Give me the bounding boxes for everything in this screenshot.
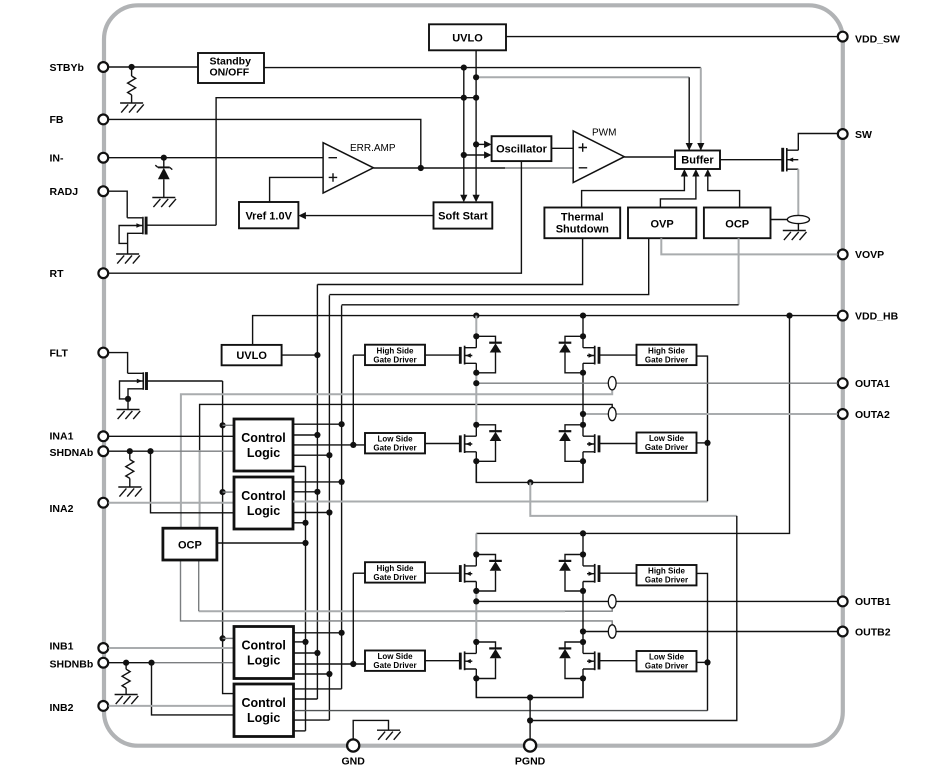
junction CL-B1 out5 on X2 bbox=[326, 671, 332, 677]
block OCP lower bbox=[163, 528, 217, 560]
wire FLT to small FET drain bbox=[109, 353, 128, 374]
junction bridge B rail right leg bbox=[580, 530, 586, 536]
junction CL-A1 out1 on X3 bbox=[339, 421, 345, 427]
block Low Side Gate Driver A-left bbox=[365, 433, 425, 453]
wire INB1 to CL-B1 bbox=[109, 647, 235, 649]
block High Side Gate Driver A-left bbox=[365, 345, 425, 365]
block Standby ON/OFF bbox=[198, 53, 264, 83]
resistor R-SHDNB bbox=[122, 669, 130, 688]
wire FB to error amp output node bbox=[109, 119, 421, 168]
arrowhead OVP into Buffer bbox=[692, 169, 699, 177]
wire SHDNAb bbox=[109, 450, 151, 452]
wire CL-B2 out1 to X3 end bbox=[294, 688, 342, 690]
svg-text:UVLO: UVLO bbox=[236, 350, 267, 362]
bond ellipse OUTB2 bbox=[608, 625, 616, 638]
wire OCP down to bus X3 bbox=[738, 238, 740, 305]
wire riser 2 to oscillator input 1 bbox=[476, 143, 488, 145]
wire HSGD B-right to gate bbox=[599, 572, 636, 574]
wire VDD_HB distribution bbox=[253, 316, 838, 345]
ground R-SHDNB bbox=[115, 695, 139, 705]
wire VDD_HB riser to bridge B rail bbox=[476, 316, 789, 534]
zener diode on IN- bbox=[155, 158, 172, 198]
svg-text:VOVP: VOVP bbox=[855, 249, 884, 261]
junction riser bus 2 bbox=[473, 95, 479, 101]
pin INB2 bbox=[50, 701, 109, 714]
op-amp ERR.AMP bbox=[323, 143, 396, 193]
arrowhead TS into Buffer bbox=[681, 169, 688, 177]
wire CL-A2 out2 to X1 bbox=[293, 491, 317, 493]
junction CL-A2 out4 on X2 bbox=[326, 509, 332, 515]
bond ellipse OUTB1 bbox=[608, 595, 616, 608]
svg-text:Low Side: Low Side bbox=[377, 435, 413, 444]
wire INA2 to CL-A2 bbox=[109, 502, 235, 504]
wire LSGD A-right input bbox=[697, 442, 708, 444]
wire OUTA1 net bbox=[476, 382, 837, 384]
wire OUTA2 net bbox=[583, 413, 838, 415]
transistor B low-right NMOS bbox=[559, 642, 599, 679]
junction bridge A source node bbox=[527, 479, 533, 485]
svg-text:SHDNBb: SHDNBb bbox=[50, 658, 94, 670]
pin OUTB1 bbox=[838, 596, 891, 608]
wire HSGD A-right input riser bbox=[697, 356, 708, 501]
svg-text:Gate Driver: Gate Driver bbox=[373, 661, 416, 670]
resistor R-STBY bbox=[128, 76, 136, 95]
svg-text:High Side: High Side bbox=[648, 567, 685, 576]
transistor A high-right NMOS bbox=[559, 336, 599, 373]
junction B high-left drain bbox=[473, 551, 479, 557]
svg-text:Logic: Logic bbox=[247, 446, 280, 460]
junction A high-left drain bbox=[473, 333, 479, 339]
arrowhead UVLO riser into Soft Start bbox=[473, 195, 480, 203]
svg-text:OUTB2: OUTB2 bbox=[855, 626, 891, 638]
bridge B left leg bbox=[475, 533, 477, 697]
bus X1 vertical bbox=[316, 285, 318, 700]
pin OUTA2 bbox=[838, 409, 890, 421]
transistor B high-left NMOS bbox=[460, 555, 502, 592]
junction A low-left source bbox=[473, 458, 479, 464]
wire CL-A1 out5 to X5 top bbox=[293, 465, 306, 467]
block Buffer bbox=[675, 151, 720, 170]
svg-text:Vref 1.0V: Vref 1.0V bbox=[245, 210, 292, 222]
pin IN- bbox=[50, 153, 109, 165]
transistor B low-left NMOS bbox=[460, 642, 502, 679]
arrowhead into Vref bbox=[298, 212, 306, 219]
wire oscillator to PWM + input bbox=[551, 147, 573, 149]
transistor SW NMOS bbox=[783, 148, 799, 172]
svg-text:Gate Driver: Gate Driver bbox=[645, 576, 688, 585]
pin PGND bbox=[515, 739, 546, 767]
wire Soft Start to Vref bbox=[302, 215, 434, 217]
wire LSGD B-right to gate bbox=[599, 660, 636, 662]
junction FLT into CL-B1 bbox=[220, 635, 226, 641]
bus X4A vertical bbox=[352, 355, 354, 445]
block Vref 1.0V bbox=[239, 202, 298, 228]
junction PGND rail bbox=[527, 717, 533, 723]
arrowhead into oscillator input 2 bbox=[484, 151, 492, 158]
wire OUTB1 net bbox=[476, 600, 837, 602]
junction CL-A2 out2 on X1 bbox=[314, 489, 320, 495]
wire bridge B to PGND pin bbox=[529, 698, 531, 741]
svg-text:OUTB1: OUTB1 bbox=[855, 596, 891, 608]
wire CL-B2 out5 to X5 end bbox=[294, 730, 306, 732]
wire CL-B1 out5 to X2 bbox=[294, 673, 330, 675]
pin SHDNAb bbox=[50, 446, 109, 458]
junction CL-B1 out2 on X5 bbox=[302, 639, 308, 645]
wire Buffer to SW FET gate bbox=[720, 159, 782, 161]
block OCP bbox=[704, 208, 771, 239]
junction B low-right drain bbox=[580, 639, 586, 645]
wire X4A to HSGD A-left bbox=[353, 354, 365, 356]
wire OUTA2 feedback bbox=[200, 404, 613, 450]
wire OVP to Buffer bbox=[660, 172, 696, 208]
junction CL-B1 out3 on X1 bbox=[314, 650, 320, 656]
junction LSGD A-right on riser bbox=[704, 440, 710, 446]
wire HSGD A-right to gate bbox=[599, 354, 636, 356]
wire CL-B2 out4 to X2 end bbox=[294, 719, 330, 721]
wire LSGD A-right to gate bbox=[599, 443, 636, 445]
block Control Logic A1 bbox=[234, 419, 293, 471]
wire Standby output to buffer column bbox=[264, 67, 701, 69]
junction SHDNAb resistor tap bbox=[127, 448, 133, 454]
wire CL-B2 out3 to bridge B right drivers bbox=[294, 710, 708, 712]
bridge B right leg bbox=[582, 533, 584, 697]
svg-text:SW: SW bbox=[855, 129, 872, 141]
block Control Logic A2 bbox=[234, 477, 293, 529]
comparator PWM bbox=[573, 128, 624, 183]
block High Side Gate Driver B-left bbox=[365, 562, 425, 582]
junction B high-left source bbox=[473, 588, 479, 594]
junction IN- zener tap bbox=[161, 155, 167, 161]
chip outline bbox=[104, 5, 843, 745]
transistor A low-left NMOS bbox=[460, 425, 502, 462]
pin VDD_SW bbox=[838, 32, 900, 46]
svg-text:ERR.AMP: ERR.AMP bbox=[350, 143, 396, 154]
wire SHDNBb resistor stub bbox=[125, 663, 127, 695]
svg-text:GND: GND bbox=[342, 756, 366, 768]
wire RT to oscillator bbox=[109, 161, 522, 273]
wire CL-A2 out3 gray to bridge A right drivers bbox=[293, 501, 708, 503]
wire LSGD B-left to gate bbox=[425, 660, 460, 662]
wire CL-B1 out1 to X3 bbox=[294, 632, 342, 634]
svg-text:Oscillator: Oscillator bbox=[496, 144, 547, 156]
svg-text:VDD_SW: VDD_SW bbox=[855, 33, 900, 45]
junction CL-A2 out1 on X3 bbox=[339, 479, 345, 485]
bond ellipse OUTA2 bbox=[608, 407, 616, 420]
svg-text:ON/OFF: ON/OFF bbox=[210, 67, 250, 79]
block Low Side Gate Driver B-left bbox=[365, 651, 425, 671]
wire HSGD B-left to gate bbox=[425, 572, 460, 574]
svg-text:Logic: Logic bbox=[247, 711, 280, 725]
wire OUTB2 net bbox=[583, 631, 838, 633]
svg-text:High Side: High Side bbox=[648, 346, 685, 355]
svg-text:INA2: INA2 bbox=[50, 503, 74, 515]
wire FLT FET gate to bus bbox=[147, 380, 223, 382]
wire gray net to buffer column bbox=[476, 76, 689, 78]
junction OCP lower on X5 bbox=[302, 540, 308, 546]
svg-text:VDD_HB: VDD_HB bbox=[855, 310, 899, 322]
svg-text:Control: Control bbox=[241, 696, 285, 710]
transistor A low-right NMOS bbox=[559, 425, 599, 462]
svg-text:UVLO: UVLO bbox=[452, 32, 483, 44]
svg-text:Logic: Logic bbox=[247, 654, 280, 668]
block Low Side Gate Driver B-right bbox=[637, 651, 697, 671]
svg-text:FLT: FLT bbox=[50, 347, 69, 359]
ground SW source bbox=[783, 231, 807, 241]
block Thermal Shutdown bbox=[544, 208, 620, 239]
wire UVLO lower output to bus X1 bbox=[282, 354, 318, 356]
svg-text:OUTA1: OUTA1 bbox=[855, 378, 890, 390]
junction VDD_HB bridge A right leg bbox=[580, 313, 586, 319]
block Low Side Gate Driver A-right bbox=[637, 433, 697, 453]
svg-text:INA1: INA1 bbox=[50, 431, 74, 443]
bus X4B vertical bbox=[352, 573, 354, 664]
wire CL-A2 out1 to X3 bbox=[293, 481, 342, 483]
bond ellipse OUTA1 bbox=[608, 377, 616, 390]
junction CL-A1 out2 on X1 bbox=[314, 432, 320, 438]
wire CL-A1 out4 to X2 bbox=[293, 454, 329, 456]
pin GND bbox=[342, 739, 366, 767]
wire OUTB1 feedback gray bbox=[565, 608, 612, 611]
wire RADJ FET gate to riser bbox=[146, 224, 216, 226]
wire LSGD B-right input bbox=[697, 661, 708, 663]
wire OCP lower output to X5 bbox=[217, 542, 306, 544]
ground substrate bbox=[377, 730, 401, 740]
wire Thermal Shutdown to Buffer bbox=[582, 172, 685, 208]
bus X2 vertical bbox=[328, 295, 330, 720]
svg-text:SHDNAb: SHDNAb bbox=[50, 447, 94, 459]
wire GND pin to substrate ground bbox=[353, 720, 388, 740]
wire UVLO to VDD_SW bbox=[506, 36, 838, 38]
wire OUTB2 feedback gray bbox=[181, 560, 613, 625]
junction riser1 osc tap bbox=[461, 152, 467, 158]
wire SHDNBb bbox=[109, 662, 152, 664]
wire gray vertical into Buffer top bbox=[700, 68, 702, 150]
junction SHDNAb branch bbox=[147, 448, 153, 454]
block Control Logic B1 bbox=[234, 627, 294, 679]
junction gray net on UVLO riser bbox=[473, 74, 479, 80]
wire CL-A1 out3 to low side gate driver A left bbox=[293, 444, 365, 446]
svg-text:Control: Control bbox=[241, 639, 285, 653]
svg-text:STBYb: STBYb bbox=[50, 62, 84, 74]
svg-text:Shutdown: Shutdown bbox=[556, 224, 609, 236]
transistor RADJ FET bbox=[116, 217, 146, 264]
pin INB1 bbox=[50, 641, 109, 653]
junction standby line / riser bbox=[461, 65, 467, 71]
svg-text:High Side: High Side bbox=[377, 346, 414, 355]
pin FB bbox=[50, 114, 109, 126]
bridge A left leg bbox=[475, 316, 477, 483]
block UVLO lower bbox=[222, 345, 282, 365]
wire IN- to error amp inverting input bbox=[109, 157, 324, 159]
wire SHDNAb branch to CL-A2 bbox=[151, 451, 235, 513]
svg-text:Logic: Logic bbox=[247, 504, 280, 518]
wire STBYb to Standby block bbox=[109, 66, 199, 68]
wire CL-A2 out5 to X5 bbox=[293, 522, 306, 524]
junction CL-B1 out4 on X4B bbox=[350, 661, 356, 667]
wire RADJ gate riser to top bus bbox=[216, 98, 476, 226]
pin STBYb bbox=[50, 62, 109, 74]
junction B high-right drain bbox=[580, 551, 586, 557]
junction A high-right drain bbox=[580, 333, 586, 339]
wire black vertical into Buffer top bbox=[688, 77, 690, 152]
svg-text:IN-: IN- bbox=[50, 153, 65, 165]
svg-text:Gate Driver: Gate Driver bbox=[373, 573, 416, 582]
wire INB2 to CL-B2 bbox=[109, 705, 235, 707]
junction UVLO lower on X1 bbox=[314, 352, 320, 358]
wire UVLO riser bbox=[475, 50, 477, 199]
junction FLT FET source-body bbox=[125, 396, 131, 402]
junction FLT into CL-A2 bbox=[220, 489, 226, 495]
arrowhead OCP into Buffer bbox=[704, 169, 711, 177]
pin RT bbox=[50, 268, 109, 280]
junction SHDNBb resistor tap bbox=[123, 660, 129, 666]
svg-text:Control: Control bbox=[241, 431, 285, 445]
sense ellipse SW source bbox=[787, 215, 809, 223]
svg-text:Gate Driver: Gate Driver bbox=[645, 355, 688, 364]
wire CL-B2 out2 to X1 end bbox=[294, 698, 318, 700]
junction CL-A2 out5 on X5 bbox=[302, 520, 308, 526]
svg-text:OVP: OVP bbox=[650, 218, 673, 230]
wire CL-B1 out2 to X5 bbox=[294, 641, 306, 643]
pin SHDNBb bbox=[50, 658, 109, 671]
wire OUTA1 feedback gray bbox=[181, 390, 612, 528]
wire OVP to VOVP pin bbox=[661, 238, 837, 254]
ground R-STBY bbox=[120, 103, 144, 113]
wire TS down to bus X1 bbox=[317, 238, 582, 284]
pin FLT bbox=[50, 347, 109, 359]
wire sense to ground bbox=[797, 224, 799, 230]
ground R-SHDNA bbox=[118, 487, 142, 497]
pin INA2 bbox=[50, 498, 109, 515]
pin RADJ bbox=[50, 186, 109, 198]
wire CL-A1 out1 to X3 bbox=[293, 423, 342, 425]
arrowhead standby riser into Soft Start bbox=[460, 195, 467, 203]
junction VDD_HB bridge B riser bbox=[786, 313, 792, 319]
svg-text:RADJ: RADJ bbox=[50, 186, 79, 198]
wire Vref to error amp + input bbox=[270, 177, 324, 202]
wire resistor stub bbox=[131, 67, 133, 103]
wire CL-A2 out4 to X2 bbox=[293, 512, 329, 514]
transistor A high-left NMOS bbox=[460, 336, 502, 373]
svg-text:Gate Driver: Gate Driver bbox=[373, 355, 416, 364]
wire SHDNBb branch to CL-B2 bbox=[152, 663, 235, 715]
svg-text:INB1: INB1 bbox=[50, 641, 74, 653]
block Oscillator bbox=[492, 136, 552, 161]
wire X4B to HSGD B-left bbox=[353, 572, 365, 574]
pin VDD_HB bbox=[838, 310, 899, 322]
svg-text:Soft Start: Soft Start bbox=[438, 211, 488, 223]
junction A low-right source bbox=[580, 458, 586, 464]
bridge B bottom rail bbox=[476, 678, 583, 697]
wire SW FET drain to SW pin bbox=[798, 134, 837, 151]
svg-text:Gate Driver: Gate Driver bbox=[373, 444, 416, 453]
block High Side Gate Driver A-right bbox=[637, 345, 697, 365]
wire FLT bus vertical bbox=[223, 381, 234, 694]
wire CL-B1 out4 to low side gate driver B left bbox=[294, 663, 366, 665]
svg-text:OUTA2: OUTA2 bbox=[855, 409, 890, 421]
wire riser 1 to oscillator input 2 bbox=[464, 154, 489, 156]
pin SW bbox=[838, 129, 872, 141]
bridge A bottom rail bbox=[476, 461, 583, 482]
bus X3 vertical bbox=[341, 305, 343, 689]
wire RADJ to small FET drain bbox=[109, 191, 128, 218]
svg-text:INB2: INB2 bbox=[50, 702, 74, 714]
pin VOVP bbox=[838, 249, 884, 261]
bus X5 vertical bbox=[305, 466, 307, 731]
ground zener bbox=[152, 198, 176, 208]
junction riser bus 1 bbox=[461, 95, 467, 101]
junction CL-A1 out3 on X4A bbox=[350, 442, 356, 448]
junction riser2 osc tap bbox=[473, 141, 479, 147]
arrowhead into oscillator input 1 bbox=[484, 141, 492, 148]
junction A high-left source bbox=[473, 370, 479, 376]
wire standby riser bbox=[463, 68, 465, 200]
svg-text:OCP: OCP bbox=[178, 540, 202, 552]
junction SHDNBb branch bbox=[148, 660, 154, 666]
pin INA1 bbox=[50, 431, 109, 443]
junction FB / error amp output bbox=[418, 165, 424, 171]
block UVLO top bbox=[429, 24, 506, 50]
svg-text:Low Side: Low Side bbox=[649, 653, 685, 662]
svg-text:OCP: OCP bbox=[725, 218, 749, 230]
svg-text:Low Side: Low Side bbox=[377, 652, 413, 661]
wire CL-A1 out2 to X1 bbox=[293, 434, 317, 436]
junction bridge B source node bbox=[527, 694, 533, 700]
svg-text:Buffer: Buffer bbox=[681, 155, 714, 167]
block Control Logic B2 bbox=[234, 684, 294, 737]
junction B low-right source bbox=[580, 675, 586, 681]
pin OUTB2 bbox=[838, 626, 891, 638]
svg-text:Control: Control bbox=[241, 489, 285, 503]
block High Side Gate Driver B-right bbox=[637, 565, 697, 585]
wire error amp output to PWM inverting input bbox=[373, 167, 505, 169]
junction VDD_HB bridge A left leg bbox=[473, 313, 479, 319]
pin OUTA1 bbox=[838, 378, 890, 390]
wire OVP down to bus X2 bbox=[329, 238, 648, 294]
arrowhead into Buffer top (black) bbox=[686, 143, 693, 151]
transistor B high-right NMOS bbox=[559, 555, 599, 592]
junction B low-left drain bbox=[473, 639, 479, 645]
junction B high-right source bbox=[580, 588, 586, 594]
wire LSGD A-left to gate bbox=[425, 443, 460, 445]
arrowhead into Buffer top (gray) bbox=[697, 143, 704, 151]
svg-text:Gate Driver: Gate Driver bbox=[645, 443, 688, 452]
svg-text:PGND: PGND bbox=[515, 756, 546, 768]
wire OCP to Buffer bbox=[708, 172, 740, 208]
bridge A right leg bbox=[582, 316, 584, 483]
block Soft Start bbox=[434, 202, 493, 228]
svg-text:Gate Driver: Gate Driver bbox=[645, 662, 688, 671]
junction STBYb resistor tap bbox=[129, 64, 135, 70]
svg-text:Low Side: Low Side bbox=[649, 434, 685, 443]
svg-text:RT: RT bbox=[50, 268, 65, 280]
wire bridge A to PGND bbox=[530, 482, 737, 516]
junction B low-left source bbox=[473, 675, 479, 681]
transistor FLT FET bbox=[117, 372, 147, 419]
wire SHDNAb resistor stub bbox=[129, 451, 131, 487]
svg-text:PWM: PWM bbox=[592, 128, 616, 139]
block OVP bbox=[628, 208, 696, 239]
wire PWM output to Buffer bbox=[624, 156, 675, 158]
resistor R-SHDNA bbox=[126, 460, 134, 479]
wire HSGD A-left to gate bbox=[425, 354, 460, 356]
junction CL-A1 out4 on X2 bbox=[326, 452, 332, 458]
wire INA1 to CL-A1 bbox=[109, 435, 235, 437]
junction A high-right source bbox=[580, 370, 586, 376]
junction A low-right drain bbox=[580, 422, 586, 428]
junction A low-left drain bbox=[473, 422, 479, 428]
wire OCP sense input bbox=[771, 219, 788, 221]
